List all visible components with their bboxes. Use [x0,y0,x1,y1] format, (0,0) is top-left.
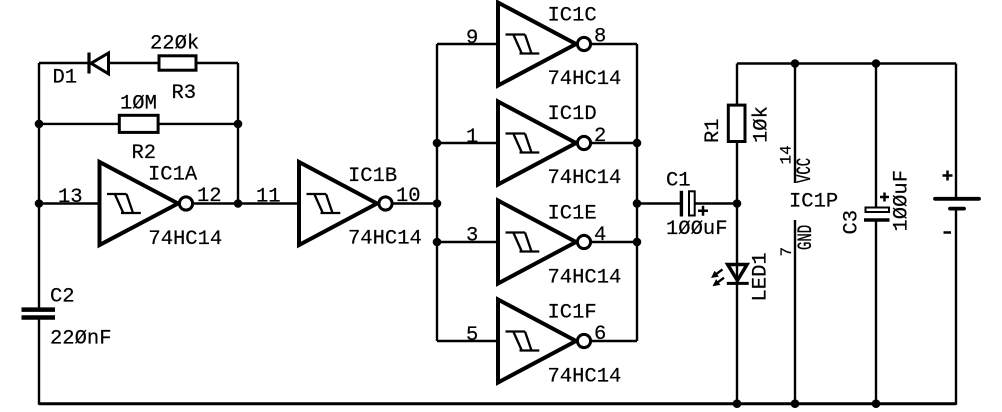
svg-text:1ØØuF: 1ØØuF [891,170,914,232]
wire battery top [955,64,957,199]
inverter IC1C [466,3,621,92]
wire pin3 [437,241,498,243]
wire input bus vertical [436,44,438,341]
node junction left rail / R2 [35,120,44,129]
svg-text:C3: C3 [841,210,864,235]
svg-text:R1: R1 [702,118,725,143]
svg-text:C2: C2 [50,286,75,309]
svg-text:R3: R3 [172,82,197,105]
svg-text:74HC14: 74HC14 [548,167,622,190]
svg-text:C1: C1 [666,170,691,193]
node junction left rail / pin13 [35,199,44,208]
wire pin2 [592,142,637,144]
svg-text:LED1: LED1 [749,252,772,301]
node junction feedback rail / IC1A output [234,199,243,208]
svg-text:13: 13 [58,186,83,209]
wire pin1 [437,142,498,144]
svg-text:74HC14: 74HC14 [348,228,422,251]
wire left rail bottom segment [38,318,40,405]
node junction feedback rail / R2 [234,120,243,129]
wire diode/R3 row [39,62,238,64]
resistor R3 [150,33,199,106]
svg-text:IC1B: IC1B [348,165,397,188]
svg-text:74HC14: 74HC14 [548,366,622,389]
wire GND pin7 [794,220,796,405]
svg-text:8: 8 [594,26,606,49]
svg-text:74HC14: 74HC14 [148,228,222,251]
wire R2 row [39,123,238,125]
svg-text:22Øk: 22Øk [150,33,199,56]
wire IC1A output to IC1B input [194,202,299,204]
wire LED branch [736,204,738,405]
node junction input bus / pin3 [433,238,442,247]
svg-text:D1: D1 [53,67,78,90]
svg-text:9: 9 [466,27,478,50]
node junction input bus / IC1B output [433,199,442,208]
capacitor C2 [22,286,112,351]
capacitor C3 [841,170,914,235]
svg-text:GND: GND [795,225,818,250]
svg-text:11: 11 [256,186,281,209]
resistor R1 [702,105,774,143]
svg-text:IC1P: IC1P [789,191,838,214]
wire C3 bottom [875,221,877,405]
node junction C3 / bottom rail [872,399,881,408]
svg-text:R2: R2 [132,142,157,165]
node junction input bus / pin1 [433,139,442,148]
LED LED1 [711,252,772,301]
op-amp U1 / inverter IC1A [58,162,222,251]
wire left rail top segment [38,63,40,309]
wire pin6 [592,340,637,342]
inverter IC1E [466,201,621,290]
resistor R2 [119,93,158,166]
svg-text:1Øk: 1Øk [751,106,774,143]
wire C3 top [875,64,877,209]
svg-text:VCC: VCC [794,158,817,183]
svg-text:2: 2 [594,125,606,148]
svg-text:1: 1 [466,126,478,149]
wire bottom rail [39,402,956,405]
battery B1 [935,171,979,233]
node junction output bus / pin4 [633,238,642,247]
svg-text:74HC14: 74HC14 [548,68,622,91]
IC power IC1P pin 7 GND [778,225,818,257]
diode D1 [53,53,109,90]
svg-text:1ØM: 1ØM [120,93,157,116]
svg-text:IC1E: IC1E [548,203,597,226]
wire IC1B output [394,202,438,204]
svg-text:6: 6 [594,323,606,346]
IC power IC1P pin 14 VCC [778,145,839,213]
svg-text:12: 12 [197,185,222,208]
svg-text:IC1D: IC1D [548,103,597,126]
wire R1 branch [736,64,738,204]
inverter IC1F [466,300,621,389]
capacitor C1 [666,170,728,242]
svg-text:5: 5 [466,324,478,347]
svg-text:7: 7 [778,247,796,257]
svg-text:10: 10 [396,185,421,208]
svg-text:4: 4 [594,224,606,247]
wire VCC pin14 [794,64,796,184]
svg-text:74HC14: 74HC14 [548,267,622,290]
wire top rail [737,62,956,64]
node junction top rail / C3 [872,59,881,68]
svg-text:IC1F: IC1F [548,302,597,325]
svg-text:1ØØuF: 1ØØuF [666,218,728,241]
wire output bus vertical [636,44,638,341]
svg-text:3: 3 [466,225,478,248]
node junction GND pin / bottom rail [791,399,800,408]
wire pin4 [592,241,637,243]
wire pin8 [592,43,637,45]
wire right feedback rail [237,63,239,204]
node junction R1 / C1 / LED1 [733,199,742,208]
wire pin5 [437,340,498,342]
inverter IC1B [256,162,422,251]
node junction output bus / C1 [633,199,642,208]
svg-text:22ØnF: 22ØnF [50,328,112,351]
wire pin9 [437,43,498,45]
wire bus to C1 [637,202,681,204]
wire pin13 input [39,202,100,204]
node junction LED1 / bottom rail [733,399,742,408]
wire battery bottom [955,210,957,405]
svg-text:IC1C: IC1C [548,5,597,28]
node junction output bus / pin2 [633,139,642,148]
inverter IC1D [466,102,621,191]
svg-text:IC1A: IC1A [148,164,198,187]
wire C1 to node [695,202,738,204]
node junction top rail / VCC pin [791,59,800,68]
